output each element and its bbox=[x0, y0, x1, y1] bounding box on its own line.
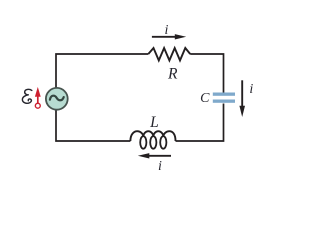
capacitor C plates bbox=[213, 93, 235, 103]
svg-text:C: C bbox=[200, 91, 210, 106]
resistor R bbox=[148, 48, 190, 60]
wire right lower segment + bottom right bbox=[176, 104, 224, 142]
label script-E (emf) bbox=[22, 89, 31, 103]
svg-text:L: L bbox=[149, 114, 159, 131]
svg-text:R: R bbox=[167, 66, 178, 83]
wire bottom-left segment + left lower bbox=[56, 108, 130, 141]
svg-text:i: i bbox=[165, 23, 169, 38]
wire top-right segment + right upper bbox=[190, 54, 223, 93]
svg-text:i: i bbox=[158, 159, 162, 174]
current arrow right of capacitor bbox=[239, 80, 245, 117]
AC source (EMF) bbox=[46, 88, 68, 110]
wire top-left segment + left upper bbox=[56, 54, 148, 90]
svg-text:i: i bbox=[249, 82, 253, 97]
current arrow below inductor bbox=[138, 153, 171, 158]
current arrow above resistor bbox=[152, 34, 186, 39]
emf arrow (red) bbox=[35, 87, 41, 108]
inductor L bbox=[130, 131, 175, 149]
